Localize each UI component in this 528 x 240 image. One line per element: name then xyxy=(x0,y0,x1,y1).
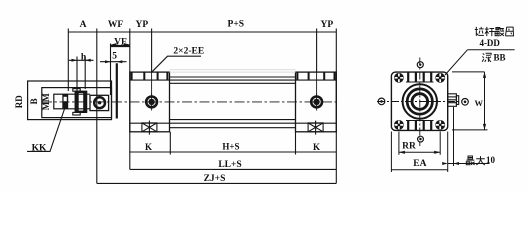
port center verticals xyxy=(152,72,317,110)
svg-text:5: 5 xyxy=(112,51,117,61)
svg-text:K: K xyxy=(145,142,152,152)
axis centerline xyxy=(42,101,340,103)
dimension VF line with arrows xyxy=(111,45,130,47)
tie rod upper line (full span) xyxy=(130,79,336,81)
svg-text:WF: WF xyxy=(108,20,124,30)
svg-text:BB: BB xyxy=(493,53,505,63)
extension line rear face (long) xyxy=(335,29,337,184)
arrowheads 5 (outside) xyxy=(105,60,111,63)
horizontal centerline end view xyxy=(377,101,460,103)
rod retainer plate xyxy=(90,95,109,110)
rod end outer rectangle xyxy=(28,81,112,120)
tie rod nut bottom-right xyxy=(435,120,445,130)
W dimension xyxy=(452,72,488,130)
h extension left xyxy=(76,57,78,91)
svg-text:W: W xyxy=(475,98,484,108)
svg-text:h: h xyxy=(81,52,87,62)
arrowheads h (outside) xyxy=(72,59,78,62)
K / H+S / K dimension line xyxy=(130,151,336,153)
extension line A-left xyxy=(67,29,69,92)
svg-text:4-DD: 4-DD xyxy=(479,38,500,48)
svg-text:ZJ+S: ZJ+S xyxy=(204,174,226,184)
svg-text:LL+S: LL+S xyxy=(218,160,241,170)
port symbol bottom xyxy=(418,136,424,142)
tube bottom line xyxy=(170,127,296,129)
right port xyxy=(311,97,322,108)
tube top line xyxy=(170,76,296,78)
svg-text:2×2-EE: 2×2-EE xyxy=(173,46,204,56)
ZJ+S dimension line xyxy=(97,182,336,184)
tie rod nut bottom-left xyxy=(394,120,404,130)
rod end inner rectangle xyxy=(42,88,112,118)
top boss band xyxy=(406,72,434,82)
faint scan lines between caps xyxy=(170,70,296,72)
RR dimension xyxy=(399,132,440,155)
svg-text:YP: YP xyxy=(135,20,148,30)
KK label underline and leader xyxy=(27,105,66,152)
svg-text:EA: EA xyxy=(413,159,426,169)
port symbol right xyxy=(462,99,469,106)
tie rod nut top-left xyxy=(394,73,404,83)
vertical centerline end view xyxy=(419,58,421,147)
leader tie-rod-nut label xyxy=(445,50,515,75)
arrowheads VF xyxy=(111,43,117,46)
max10 dimension xyxy=(448,107,490,166)
extension line YP left port center xyxy=(151,29,153,73)
svg-text:P+S: P+S xyxy=(228,20,245,30)
tube upper inner line xyxy=(170,82,296,84)
svg-text:K: K xyxy=(313,142,320,152)
svg-text:YP: YP xyxy=(320,20,333,30)
tie rod lower line (full span) xyxy=(130,122,336,124)
extension line WF right / front cap face (long) xyxy=(129,29,131,170)
dimension 5 line xyxy=(100,61,127,63)
svg-text:RR: RR xyxy=(402,141,416,151)
rod edge lines through nut region xyxy=(67,93,90,95)
tie rod nut ticks on cap tops xyxy=(132,72,335,80)
label max10 (最大10) xyxy=(466,156,485,165)
thick bar at rod face x=116.8 xyxy=(116,63,118,118)
extension cap2 left edge xyxy=(295,132,297,155)
rod thread block xyxy=(62,94,68,109)
svg-text:H+S: H+S xyxy=(222,141,239,151)
label 拉杆螺母 (tie rod nut) xyxy=(475,27,514,36)
extension line YP right port center xyxy=(316,29,318,73)
rod stub with thread xyxy=(448,94,459,107)
h extension right xyxy=(84,57,86,90)
svg-text:KK: KK xyxy=(32,143,47,153)
end cap square xyxy=(391,72,447,130)
leader 2x2-EE xyxy=(152,56,201,72)
port symbol top xyxy=(417,62,423,68)
LL+S dimension line xyxy=(130,168,336,170)
lock nut xyxy=(73,89,87,115)
right cushion screw xyxy=(308,121,323,135)
front (left) cap xyxy=(130,72,170,132)
tie rod nut top-right xyxy=(435,73,445,83)
bottom boss band xyxy=(406,121,434,131)
extension line A/WF boundary (long, to ZJ+S) xyxy=(96,29,98,184)
label 深BB (depth BB) xyxy=(482,53,491,62)
EA dimension xyxy=(391,132,447,173)
extension cap1 right edge xyxy=(169,132,171,155)
retainer ring xyxy=(94,97,105,108)
svg-text:A: A xyxy=(80,20,87,30)
top dimension chain line xyxy=(68,31,336,33)
svg-text:10: 10 xyxy=(486,155,496,165)
left cushion screw xyxy=(142,121,157,135)
svg-text:VF: VF xyxy=(114,38,127,48)
tube lower inner line xyxy=(170,119,296,121)
rear (right) cap xyxy=(296,72,337,132)
svg-text:B: B xyxy=(29,98,39,104)
port symbol left xyxy=(378,98,385,105)
dimension h line xyxy=(69,59,94,61)
bore circles xyxy=(403,84,437,118)
piston rod xyxy=(54,94,67,109)
left port xyxy=(146,97,157,108)
svg-text:RD: RD xyxy=(14,95,24,108)
extension line VF left xyxy=(110,44,112,96)
